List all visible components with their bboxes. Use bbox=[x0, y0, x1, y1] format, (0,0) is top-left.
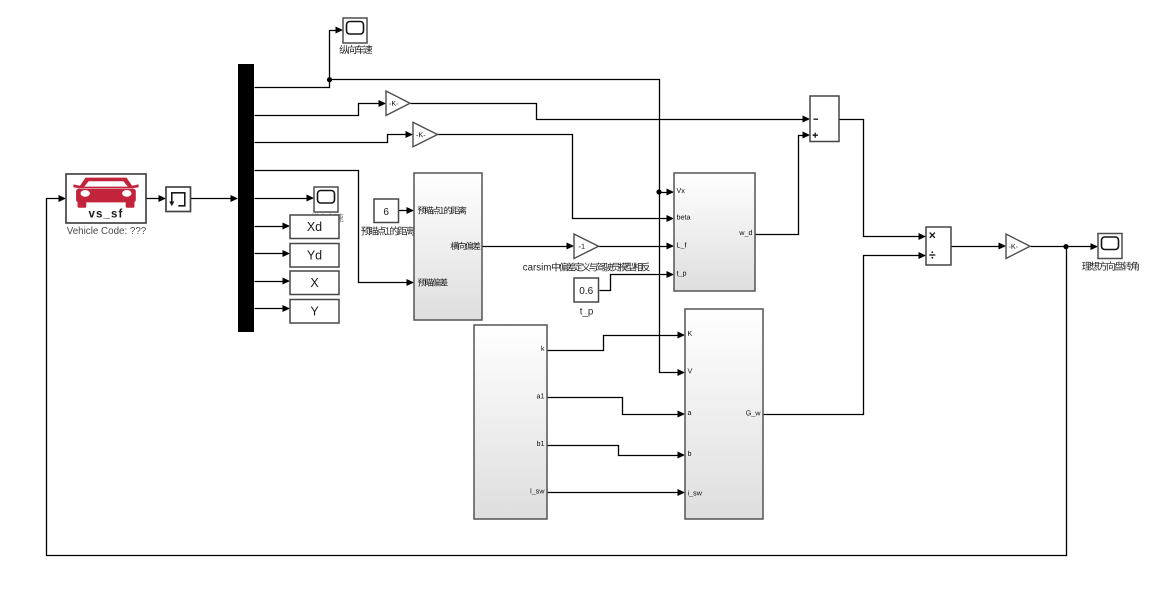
block constant 0.6 bbox=[574, 278, 599, 302]
wire gain K3 to scope 理想方向盘转角 bbox=[1031, 243, 1099, 250]
wire mux port9 to Y bbox=[255, 305, 291, 312]
svg-text:Xd: Xd bbox=[307, 220, 322, 234]
wire gain -1 to L_f input bbox=[599, 243, 675, 250]
port label G_w output bbox=[746, 410, 760, 416]
svg-text:6: 6 bbox=[383, 207, 389, 218]
sum block bbox=[810, 96, 839, 142]
wire mux port3 to gain K2 bbox=[255, 131, 414, 143]
block small scope bbox=[314, 187, 338, 212]
label 理想方向盘转角 bbox=[1082, 261, 1139, 270]
wire gain K2 to beta input bbox=[438, 135, 675, 223]
block scope 理想方向盘转角 bbox=[1098, 234, 1122, 259]
wire b1 output to b input bbox=[548, 446, 686, 459]
wire constant 0.6 to t_p input bbox=[600, 271, 675, 291]
port label b1 output bbox=[537, 441, 544, 446]
label 纵向车速 bbox=[340, 45, 373, 54]
gain K3 bbox=[1006, 234, 1030, 259]
port label 预瞄点1的距离 bbox=[418, 206, 467, 214]
block Xd bbox=[290, 215, 339, 239]
port label 横向偏差 output bbox=[451, 242, 481, 250]
svg-text:Y: Y bbox=[310, 305, 319, 319]
wire k output to K input bbox=[548, 332, 686, 351]
label carsim中偏差定义与驾驶员模型相反 bbox=[523, 262, 650, 273]
subsystem 预瞄偏差计算 bbox=[414, 173, 482, 320]
label t_p bbox=[580, 307, 594, 318]
block X bbox=[290, 271, 339, 295]
wire sum output to product first input bbox=[840, 120, 927, 241]
wire mux port5 to small scope bbox=[255, 195, 315, 202]
label 横向车速 partially hidden bbox=[311, 213, 344, 222]
block scope 纵向车速 bbox=[343, 18, 367, 43]
gain -1 bbox=[574, 234, 599, 259]
subsystem vehicle parameters bbox=[474, 325, 547, 519]
junction dot scope branch bbox=[327, 77, 332, 82]
wire mux port2 to gain K1 bbox=[255, 100, 387, 116]
port label K input bbox=[688, 331, 692, 336]
wire a1 output to a input bbox=[548, 398, 686, 418]
junction dot Vx branch bbox=[656, 189, 661, 194]
block Y bbox=[290, 300, 339, 324]
wire G_w output to product second input bbox=[764, 252, 927, 415]
block Yd bbox=[290, 244, 339, 268]
wire gain K1 to sum minus input bbox=[411, 104, 811, 123]
port label w_d output bbox=[739, 230, 752, 237]
port label t_p input bbox=[677, 271, 687, 277]
label Vehicle Code: ??? bbox=[67, 226, 147, 237]
wire feedback loop from output junction to vs_sf input bbox=[47, 195, 1067, 556]
block memory bbox=[166, 187, 191, 212]
wire product to gain K3 bbox=[952, 243, 1007, 250]
wire constant 6 to 预瞄点1的距离 input bbox=[399, 207, 415, 214]
port label Vx bbox=[677, 188, 685, 193]
port label L_f bbox=[677, 242, 686, 249]
wire vs_sf output to memory block bbox=[147, 195, 167, 202]
gain K1 bbox=[386, 91, 410, 116]
wire mux port4 to 预瞄偏差 input bbox=[255, 171, 415, 287]
svg-text:X: X bbox=[310, 276, 319, 290]
port label beta bbox=[677, 214, 691, 219]
svg-text:0.6: 0.6 bbox=[579, 286, 593, 297]
port label i_sw input bbox=[688, 490, 702, 497]
label 预瞄点1的距离 bbox=[361, 226, 414, 235]
svg-text:vs_sf: vs_sf bbox=[89, 208, 124, 220]
port label k output bbox=[541, 346, 544, 351]
block constant 6 bbox=[374, 199, 399, 223]
subsystem gain schedule G_w bbox=[685, 309, 763, 519]
wire mux port6 to Xd bbox=[255, 223, 291, 230]
wire memory block to mux bbox=[191, 195, 239, 202]
svg-text:Yd: Yd bbox=[307, 249, 322, 263]
svg-text:t_p: t_p bbox=[580, 307, 594, 318]
wire mux port8 to X bbox=[255, 278, 291, 285]
wire 横向偏差 output to gain -1 bbox=[483, 243, 575, 250]
port label V input bbox=[688, 368, 693, 373]
port label a input bbox=[688, 411, 692, 415]
wire mux port1 to scope 纵向车速 with branch to Vx and V bbox=[255, 27, 686, 377]
port label a1 output bbox=[537, 393, 544, 398]
product block bbox=[926, 227, 951, 265]
svg-text:Vehicle Code: ???: Vehicle Code: ??? bbox=[67, 226, 147, 237]
gain K2 bbox=[413, 122, 438, 147]
wire w_d output to sum plus input bbox=[756, 132, 811, 235]
wire l_sw output to i_sw input bbox=[548, 489, 686, 496]
mux selector bar bbox=[238, 64, 254, 332]
block vs_sf CarSim S-Function bbox=[66, 174, 146, 223]
port label l_sw output bbox=[531, 488, 545, 495]
junction dot output branch bbox=[1063, 244, 1068, 249]
wire mux port7 to Yd bbox=[255, 250, 291, 257]
port label b input bbox=[688, 451, 691, 456]
svg-text:carsim: carsim bbox=[523, 263, 552, 274]
subsystem driver model w_d bbox=[674, 173, 755, 291]
port label 预瞄偏差 bbox=[418, 278, 448, 286]
